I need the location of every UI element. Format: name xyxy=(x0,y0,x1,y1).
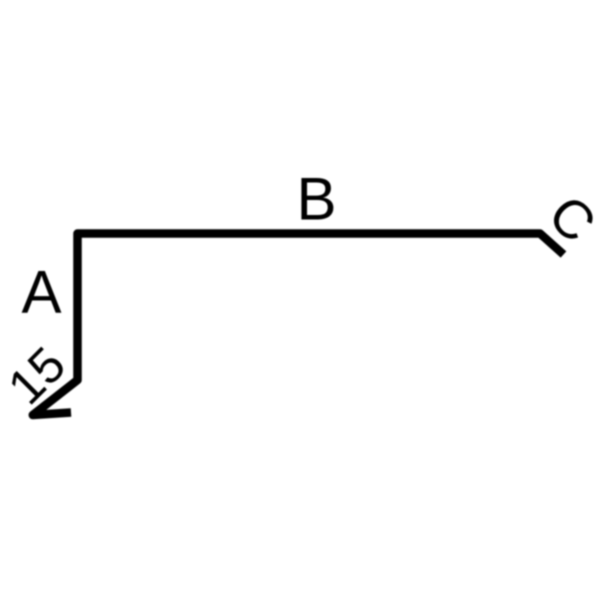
label C xyxy=(537,184,600,254)
svg-text:B: B xyxy=(296,166,336,233)
svg-text:15: 15 xyxy=(0,336,76,415)
svg-text:A: A xyxy=(21,259,61,326)
profile line xyxy=(33,234,564,416)
label 15 xyxy=(0,336,76,415)
